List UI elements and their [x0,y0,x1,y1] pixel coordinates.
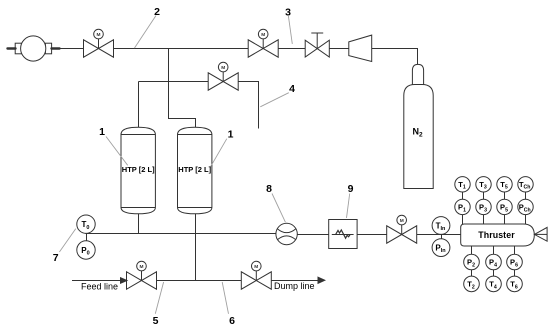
svg-text:3: 3 [285,6,291,18]
svg-text:Thruster: Thruster [478,230,515,240]
svg-text:4: 4 [289,83,295,95]
svg-text:6: 6 [229,315,235,327]
svg-text:7: 7 [53,252,59,264]
svg-text:8: 8 [266,183,272,195]
svg-text:HTP [2 L]: HTP [2 L] [122,165,155,174]
svg-text:5: 5 [153,315,159,327]
svg-text:2: 2 [154,6,160,18]
svg-text:Dump line: Dump line [274,281,315,291]
svg-text:HTP [2 L]: HTP [2 L] [178,165,211,174]
svg-text:9: 9 [348,183,354,195]
svg-text:N2: N2 [412,127,423,139]
svg-text:1: 1 [99,126,105,138]
svg-text:Feed line: Feed line [81,282,118,292]
svg-text:1: 1 [228,128,234,140]
